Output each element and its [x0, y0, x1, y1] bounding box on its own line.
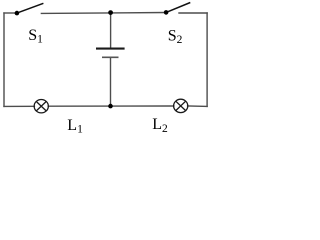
svg-text:S2: S2 — [168, 27, 183, 46]
svg-text:L1: L1 — [67, 117, 83, 136]
svg-text:L2: L2 — [152, 116, 168, 135]
svg-text:S1: S1 — [28, 27, 43, 46]
